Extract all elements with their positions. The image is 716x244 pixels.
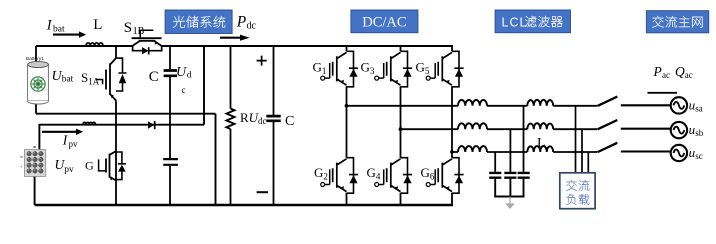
wire filter cap tap phase A [523, 106, 525, 172]
wire phase C to grid source [621, 150, 671, 152]
svg-text:Q: Q [675, 64, 685, 79]
diode of S1B [133, 46, 162, 55]
AC source u_sa [671, 97, 687, 113]
capacitor Cf A [518, 173, 530, 178]
node phase B junction [399, 127, 403, 131]
breaker switch phase B [598, 120, 618, 129]
capacitor (boost side, below line1) [169, 114, 171, 205]
transistor G1 (IGBT) [333, 52, 347, 85]
svg-text:ac: ac [685, 70, 693, 80]
svg-text:bat: bat [62, 75, 74, 85]
wire cap bank bottoms [494, 179, 524, 197]
gate lead S1B [140, 30, 153, 38]
svg-text:P: P [236, 14, 247, 31]
inductor L2 phase A [527, 100, 553, 106]
title box 交流主网 [646, 11, 708, 33]
breaker switch phase A [598, 97, 618, 106]
transistor G2 (IGBT) [333, 159, 347, 192]
capacitor C (dc-link main) [273, 46, 275, 205]
wire phase A mid [487, 105, 527, 107]
wire phase C mid [487, 151, 527, 153]
svg-text:G4: G4 [367, 165, 381, 182]
svg-text:bat: bat [53, 24, 65, 34]
AC load box [560, 173, 595, 209]
diode of G [116, 152, 126, 180]
transistor G5 (IGBT) [438, 52, 452, 85]
svg-text:ac: ac [662, 70, 670, 80]
top DC+ bus wire [36, 45, 453, 47]
wire inverter leg A vertical [346, 46, 348, 205]
gate lead G4 [379, 169, 384, 184]
wire PV positive rail (line2) [39, 125, 204, 150]
transistor G (boost IGBT) [106, 151, 116, 180]
svg-text:U: U [176, 65, 187, 80]
wire filter cap tap phase C [494, 152, 496, 172]
inductor L battery [86, 43, 103, 46]
svg-text:C: C [149, 69, 159, 85]
gate lead G5 [430, 63, 435, 78]
bottom DC- bus wire [35, 204, 453, 207]
svg-text:1B: 1B [133, 26, 145, 37]
wire filter cap tap phase B [509, 129, 511, 172]
svg-text:G3: G3 [361, 60, 375, 77]
wire line1 drop to bottom bus [215, 114, 217, 205]
polarity + [257, 56, 267, 66]
ground [509, 197, 511, 205]
transistor G3 (IGBT) [387, 52, 401, 85]
transistor G4 (IGBT) [387, 159, 401, 192]
svg-text:C: C [285, 114, 294, 129]
svg-text:c: c [182, 85, 186, 95]
transistor G6 (IGBT) [438, 159, 452, 192]
AC source u_sb [671, 122, 687, 138]
svg-text:+: + [20, 164, 23, 169]
wire phase B to grid source [621, 128, 671, 130]
gate lead G2 [325, 169, 330, 184]
diode of G1 leg [347, 51, 359, 87]
svg-text:L: L [537, 136, 546, 151]
resistor R branch [230, 46, 232, 205]
wire load tap phase C [587, 152, 589, 173]
svg-text:P: P [653, 64, 662, 79]
wire boost output vertical [203, 46, 205, 125]
wire phase A to filter [347, 105, 459, 107]
title box DC/AC [351, 10, 418, 33]
gate lead S1A [96, 80, 102, 85]
svg-text:S: S [81, 70, 88, 85]
svg-text:LCL: LCL [502, 15, 528, 29]
wire phase B mid [487, 128, 527, 130]
svg-text:G5: G5 [416, 60, 430, 77]
diode of G2 leg [347, 158, 359, 194]
inductor L2 phase B [527, 123, 553, 129]
svg-text:sb: sb [695, 128, 704, 138]
wire battery bottom lead [35, 102, 37, 114]
svg-text:d: d [187, 71, 192, 81]
wire inverter leg C vertical [451, 46, 453, 205]
svg-text:m: m [20, 154, 24, 159]
inductor L2 phase C [527, 146, 553, 152]
svg-text:G1: G1 [313, 60, 327, 77]
wire phase A to breaker [553, 105, 597, 107]
wire phase B to breaker [553, 128, 597, 130]
title box 光储系统 [165, 10, 232, 34]
PV array U_pv icon [25, 150, 46, 177]
wire phase A to grid source [621, 104, 671, 106]
svg-text:1A: 1A [88, 76, 100, 86]
svg-text:G2: G2 [314, 165, 328, 182]
diode of G5 leg [452, 51, 464, 87]
inductor L1 phase A [458, 100, 487, 106]
wire phase C to breaker [553, 151, 597, 153]
svg-text:sa: sa [695, 103, 703, 113]
capacitor Cf C [489, 173, 501, 178]
title box LCL滤波器 [495, 10, 570, 33]
current arrow I_pv [42, 131, 76, 133]
diode of S1A [116, 58, 127, 91]
svg-text:dc: dc [258, 116, 267, 126]
svg-text:dc: dc [247, 21, 257, 32]
wire load tap phase B [581, 129, 583, 173]
node phase A junction [345, 104, 349, 108]
svg-text:L: L [93, 17, 102, 33]
svg-text:G: G [85, 158, 94, 172]
diode D_pv on PV rail [148, 121, 154, 128]
svg-text:G6: G6 [421, 165, 435, 182]
svg-text:pv: pv [69, 139, 79, 149]
gate lead G1 [325, 63, 330, 78]
transistor S1A (IGBT) with vertical line [115, 46, 117, 205]
gate lead G6 [430, 169, 435, 184]
diode of G4 leg [401, 158, 413, 194]
svg-text:sc: sc [695, 151, 703, 161]
power arrow P_dc [220, 37, 240, 39]
diode of G3 leg [401, 51, 413, 87]
wire PV panel bottom lead [34, 177, 36, 206]
capacitor C (dc-link left) [169, 46, 171, 114]
gate lead G [99, 159, 106, 171]
transistor S1B (IGBT horizontal) [132, 38, 162, 46]
wire load tap phase A [575, 106, 577, 173]
inductor L1 phase C [458, 146, 487, 152]
diode of G6 leg [452, 158, 464, 194]
svg-text:S: S [124, 20, 132, 36]
wire phase B to filter [401, 128, 459, 130]
current arrow I_bat [53, 34, 79, 36]
wire phase C to filter [452, 151, 458, 153]
tick line above u_sa [648, 92, 678, 94]
capacitor Cf B [504, 173, 516, 178]
wire battery top lead [35, 46, 37, 62]
breaker switch phase C [598, 143, 618, 152]
wire inverter leg B vertical [400, 46, 402, 205]
gate lead G3 [379, 63, 384, 78]
wire battery negative rail (line1) [36, 113, 216, 115]
svg-text:DC/AC: DC/AC [362, 15, 406, 31]
polarity - [257, 191, 268, 193]
inductor L1 phase B [458, 123, 487, 129]
AC source u_sc [671, 145, 687, 161]
svg-text:pv: pv [64, 165, 74, 175]
inductor on PV rail [83, 122, 96, 124]
svg-text:I: I [46, 17, 53, 33]
node phase C junction [450, 150, 454, 154]
